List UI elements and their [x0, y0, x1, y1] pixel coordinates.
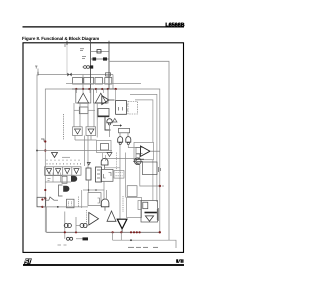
wire AND2 out	[104, 207, 106, 211]
junction J6	[41, 206, 43, 208]
figure ID text	[128, 246, 158, 248]
junction bottom dots	[112, 231, 162, 233]
wire PWM to gates a	[119, 133, 121, 137]
label at J3	[162, 185, 164, 187]
wire pin2 down	[66, 45, 68, 75]
junction J5	[44, 197, 46, 199]
footer ST logo letters	[25, 260, 31, 264]
wire drop x76	[75, 217, 77, 232]
zener D2	[93, 57, 97, 60]
wire y190 across	[83, 189, 104, 191]
reference block node	[90, 65, 93, 68]
block reference REF	[79, 107, 88, 114]
wire comparator outputs down a	[73, 103, 75, 127]
switch S1	[46, 197, 58, 200]
block OSC tall	[86, 168, 91, 180]
label under bus	[58, 244, 67, 246]
wire Vcc to VREF lower	[91, 58, 109, 60]
junction J1	[44, 140, 46, 142]
block mid-right inner	[138, 201, 141, 210]
block dashed content innards	[116, 173, 123, 176]
block GND cell	[141, 201, 158, 223]
footer rule	[23, 264, 184, 266]
wire block link y167.8	[105, 167, 121, 169]
junction J8	[75, 231, 77, 233]
gate G1 bubble	[119, 142, 121, 144]
label VREF small	[80, 49, 84, 51]
wire VREF distribution	[109, 61, 169, 240]
triangle GND buffer	[145, 216, 153, 221]
labels above cells	[47, 163, 81, 165]
wire stub x83	[82, 75, 84, 90]
pin 2 stub	[66, 41, 68, 45]
comparator CMP9 triangle	[74, 169, 79, 174]
block DIS innards	[69, 202, 72, 206]
pin stub top-left TIMER	[37, 69, 39, 75]
gate G2	[126, 137, 131, 143]
wire comparator outputs down d	[93, 103, 95, 127]
wire drop x112.6	[112, 232, 114, 240]
capacitor C1	[67, 237, 73, 240]
transistor Q1	[133, 158, 141, 165]
wire bus dark segment	[72, 88, 117, 90]
block mid small	[127, 186, 137, 197]
gate OR2	[101, 158, 108, 165]
block top row 2	[84, 78, 94, 85]
wire CMP3 out arrow	[109, 99, 115, 101]
junction on y190 b	[95, 189, 97, 191]
comparator CMP5 cell	[86, 127, 96, 136]
dashed wire x123	[122, 196, 124, 212]
wire bus upper gray	[66, 83, 141, 85]
gate AND2	[101, 199, 109, 207]
wire stub x113	[112, 75, 114, 90]
wire TIMER horizontal	[38, 74, 113, 76]
gate G2 bubble	[127, 142, 129, 144]
block starter	[143, 162, 158, 175]
wire Q1 collector	[139, 154, 141, 158]
wire OSC down	[88, 180, 90, 193]
wire x81.7	[81, 190, 83, 208]
label cluster left	[48, 179, 51, 181]
wire NOR1 out	[109, 125, 111, 137]
junction J9	[130, 239, 132, 241]
gate OR1	[63, 186, 69, 192]
wire drop x64.8	[64, 212, 66, 239]
label UVLO	[82, 57, 86, 59]
block soft start innards	[104, 173, 112, 179]
wire cluster a	[45, 175, 62, 177]
comparator CMP2 cell	[94, 89, 109, 103]
wire down x97	[96, 103, 98, 137]
zener D3	[103, 57, 107, 60]
gate AND1	[71, 176, 77, 182]
junction J2	[44, 149, 46, 151]
gate G1	[118, 137, 123, 143]
wire REF left	[74, 109, 79, 111]
block soft start logic	[101, 169, 113, 181]
wire U1 in+	[136, 147, 141, 149]
driver DRV triangle	[117, 219, 127, 229]
dashed block MODE	[128, 102, 138, 115]
wire bottom-left route	[42, 206, 88, 208]
wire DRV down	[121, 229, 123, 233]
pin 2 label	[64, 44, 66, 47]
dashed line U2	[86, 210, 88, 228]
thermal bar	[145, 212, 157, 214]
pin Vcc stub and rail	[90, 41, 92, 89]
latch FF1	[116, 101, 127, 115]
block sync inner	[101, 144, 109, 151]
wire cell drops left	[50, 173, 61, 183]
latch FF1 pins J L	[119, 107, 123, 111]
footer ST logo	[24, 259, 32, 265]
block sync outer	[97, 141, 112, 153]
block above gate	[98, 109, 109, 117]
dashed wire x78.5	[78, 197, 80, 208]
current source I2	[64, 224, 71, 228]
wire FF1 to MODE b	[127, 109, 129, 111]
dashed line disable	[63, 114, 65, 140]
block GND inner box	[143, 202, 148, 209]
wire OR2 out	[104, 165, 106, 169]
svg-text:Figure 8. Functional & Block D: Figure 8. Functional & Block Diagram	[22, 36, 99, 41]
wire Q1 emitter	[140, 165, 160, 186]
comparator CMP6 triangle	[46, 169, 51, 174]
wire bottom return	[113, 240, 176, 248]
divider innards	[97, 170, 100, 178]
wire feedback nest 3	[135, 100, 153, 142]
arrow marker mid	[107, 153, 112, 157]
junction dots comparator bus	[75, 88, 117, 90]
label GND side	[157, 208, 158, 221]
wire comparator outputs down b	[79, 103, 81, 127]
op-amp U2	[89, 213, 99, 226]
cell dividers	[54, 167, 72, 175]
wire FB horizontal	[37, 150, 112, 152]
wire to Rs	[76, 238, 83, 240]
block PWM bar	[119, 128, 130, 132]
wire OR2 inputs	[103, 153, 106, 161]
block sense innards	[98, 198, 100, 203]
footer page number	[176, 259, 183, 263]
wire bottom-left drop	[45, 207, 47, 232]
junction J7	[64, 231, 66, 233]
wire FF1 to MODE a	[127, 104, 129, 106]
label starter side	[159, 167, 161, 172]
block bottom-left	[37, 197, 46, 207]
wire cluster b	[45, 181, 71, 183]
wire gate1 down	[119, 145, 121, 220]
wire U1 in-	[136, 153, 141, 155]
junction black	[36, 150, 38, 152]
current source I1	[83, 66, 90, 69]
node corner mark	[41, 139, 44, 142]
comparator CMP8 triangle	[65, 169, 70, 174]
pin label TIMER	[35, 66, 38, 69]
comparator CMP1 cell	[76, 89, 91, 103]
wire arrow into PWM	[113, 125, 120, 127]
pin VREF stub and rail	[108, 41, 110, 89]
op-amp U1 box	[134, 142, 154, 159]
wire long y158.5	[104, 158, 136, 160]
wire driver input frame	[136, 147, 143, 163]
wire AND2 input b	[106, 190, 108, 200]
wire cells out	[75, 136, 97, 169]
wire Vcc to VREF upper	[91, 50, 109, 52]
block SS	[62, 176, 67, 183]
resistor R1 on wire	[106, 73, 111, 76]
wire drops into CMP1	[77, 89, 116, 102]
block sense wide	[88, 193, 101, 206]
diode D1	[97, 50, 101, 53]
block top row 1	[73, 78, 83, 85]
wire left rail	[36, 75, 38, 198]
labels row above disable	[47, 160, 79, 162]
comparator CMP3	[102, 96, 109, 105]
block top row 4	[105, 78, 112, 85]
gate NOR1 bubble	[109, 123, 111, 125]
wire gate2 down	[128, 145, 136, 148]
pin marker above OSC	[87, 163, 90, 166]
wire PWM to gates b	[127, 133, 129, 137]
header rule	[23, 26, 185, 28]
wire OR2 feed down	[103, 181, 105, 199]
junction J4	[44, 189, 46, 191]
block top row 3	[95, 78, 103, 85]
junction J6b	[41, 198, 43, 200]
wire bus with junctions	[45, 89, 160, 232]
wire buffer out	[62, 156, 70, 158]
buffer B1	[52, 153, 58, 158]
dashed wire x116.3	[115, 153, 117, 171]
pin tick on TIMER wire	[37, 72, 39, 76]
wire I3 left	[76, 225, 80, 227]
comparator CMP7 triangle	[56, 169, 61, 174]
op-amp U1 error amp	[141, 146, 151, 156]
wire REF right	[88, 109, 95, 111]
block DIS	[67, 199, 75, 208]
diagram frame	[23, 43, 184, 253]
wire nest 3 lower	[152, 160, 154, 201]
junction on y190 a	[88, 189, 90, 191]
wire block feed	[125, 153, 127, 198]
block above gate bottom bar	[98, 116, 109, 118]
diode bowtie on TIMER wire	[67, 73, 71, 77]
wire dark corner	[105, 117, 111, 130]
wire U1 out	[150, 150, 160, 152]
amp A3 up triangle	[107, 211, 116, 221]
junction J3	[159, 185, 161, 187]
wire feedback nest 2	[130, 94, 157, 202]
marker up triangle	[113, 118, 117, 122]
wire comparator outputs down c	[87, 103, 89, 127]
label PWM dark	[137, 159, 144, 162]
comparator CMP4 cell	[73, 127, 83, 136]
wire drop x121.3	[120, 232, 122, 240]
current source I3	[80, 224, 87, 228]
wire bottom bus	[46, 231, 160, 233]
block mid-right tall	[127, 198, 142, 218]
sense resistor Rs	[83, 237, 89, 240]
gate NOR1	[107, 119, 112, 123]
bracket block left	[59, 185, 63, 196]
junction black bottom	[57, 206, 59, 208]
block divider tall	[96, 167, 102, 182]
block dashed content	[114, 171, 124, 179]
arrowhead into PWM	[120, 124, 122, 126]
comparator cell row frame	[45, 167, 82, 175]
